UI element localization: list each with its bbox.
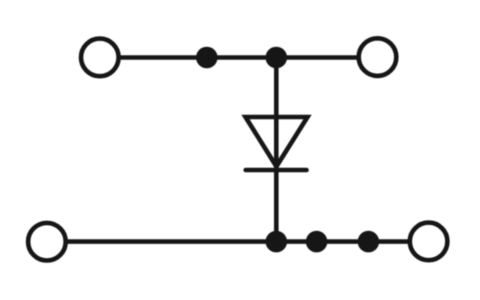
wire bottom horizontal	[67, 239, 410, 244]
diode D1 cathode bar	[246, 168, 307, 173]
terminal circle bottom-left	[28, 223, 66, 261]
junction dot bottom wire right	[358, 231, 380, 253]
terminal circle bottom-right	[410, 223, 448, 261]
junction dot top wire at vertical node	[266, 47, 288, 69]
diode D1 triangle (anode, pointing down)	[246, 117, 308, 167]
junction dot bottom wire at vertical node	[266, 231, 288, 253]
junction dot top wire left	[196, 47, 218, 69]
terminal circle top-right	[359, 38, 397, 76]
terminal circle top-left	[81, 39, 119, 77]
wire vertical (node between diode and terminals)	[274, 58, 279, 242]
junction dot bottom wire middle	[306, 231, 328, 253]
wire top horizontal	[120, 55, 359, 60]
